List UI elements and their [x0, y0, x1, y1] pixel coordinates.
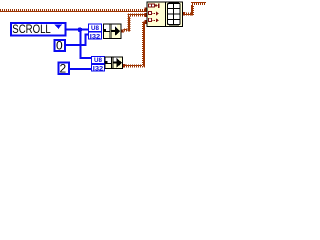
background	[0, 0, 206, 83]
bottom conversion type labels U8 / I32	[91, 56, 105, 72]
svg-text:2: 2	[60, 62, 67, 76]
enum constant SCROLL	[11, 23, 66, 36]
wire: branch down to bottom converter	[79, 30, 81, 59]
wire: middle chain output to build-array input 2	[121, 13, 148, 33]
node stub input 1	[144, 8, 147, 12]
bottom convert node U2	[105, 57, 123, 69]
svg-text:I32: I32	[90, 33, 101, 40]
row 3 element input icon	[148, 18, 151, 21]
wire: constant 2 to bottom converter I32 input	[70, 68, 91, 70]
wire: constant 0 to top converter I32 input	[66, 44, 87, 46]
wire: build-array output to right edge	[183, 2, 206, 16]
build array node	[147, 2, 183, 27]
row 2 element input icon	[148, 11, 151, 14]
svg-text:0: 0	[56, 39, 63, 53]
wire: bottom chain output to build-array input 3	[123, 20, 148, 68]
divider	[165, 2, 166, 27]
array glyph grid	[168, 3, 181, 24]
svg-text:U8: U8	[94, 57, 102, 64]
row 1 array input icon	[148, 4, 151, 7]
svg-text:I32: I32	[93, 66, 104, 73]
numeric constant 0	[55, 39, 65, 53]
wire: SCROLL enum output	[66, 29, 88, 31]
wire: main cluster-array wire top	[0, 9, 147, 12]
top conversion type labels U8 / I32	[88, 24, 102, 40]
svg-text:SCROLL: SCROLL	[12, 24, 51, 36]
top convert node U1	[103, 24, 121, 39]
wire junction dot	[78, 27, 83, 32]
numeric constant 2	[59, 62, 69, 76]
svg-text:U8: U8	[91, 25, 99, 32]
